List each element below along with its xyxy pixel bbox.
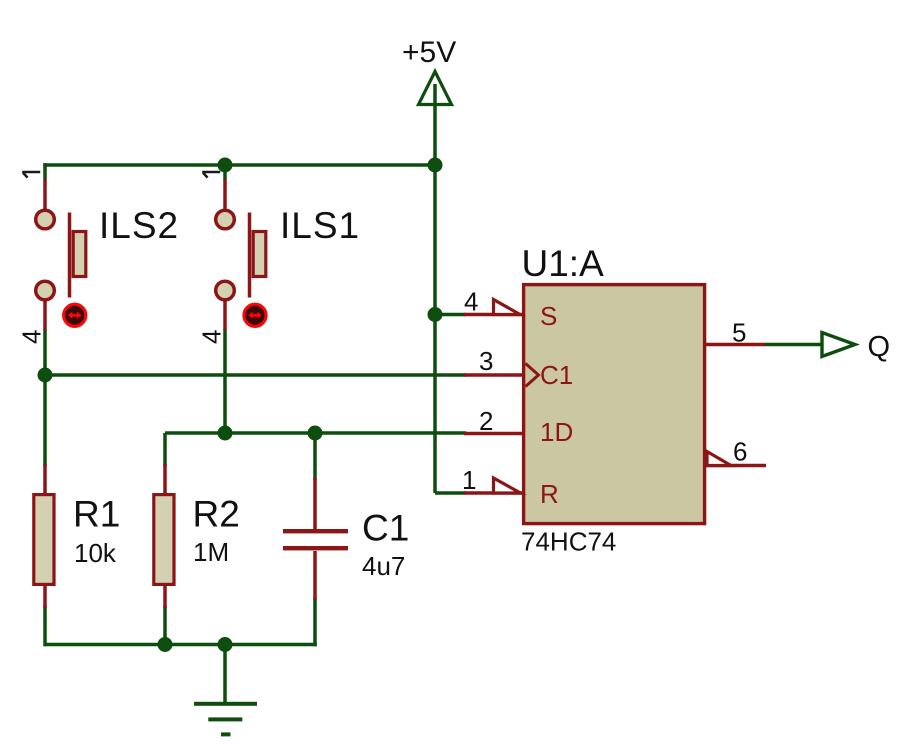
svg-text:74HC74: 74HC74 xyxy=(521,527,616,557)
svg-text:4u7: 4u7 xyxy=(362,551,405,581)
svg-text:+5V: +5V xyxy=(402,36,456,69)
svg-text:1D: 1D xyxy=(540,417,573,447)
svg-text:U1:A: U1:A xyxy=(522,243,605,284)
svg-text:4: 4 xyxy=(464,287,478,317)
svg-text:ILS2: ILS2 xyxy=(99,205,179,246)
svg-text:1: 1 xyxy=(462,465,476,495)
svg-text:4: 4 xyxy=(17,330,47,344)
svg-text:2: 2 xyxy=(479,406,493,436)
svg-text:S: S xyxy=(540,301,557,331)
svg-text:10k: 10k xyxy=(74,538,117,568)
svg-text:4: 4 xyxy=(197,330,227,344)
svg-text:R2: R2 xyxy=(193,494,240,535)
svg-text:1M: 1M xyxy=(193,537,229,567)
svg-text:3: 3 xyxy=(479,346,493,376)
svg-text:ILS1: ILS1 xyxy=(280,205,360,246)
svg-text:C1: C1 xyxy=(540,360,573,390)
svg-text:R: R xyxy=(540,479,559,509)
svg-text:6: 6 xyxy=(733,437,747,467)
svg-text:R1: R1 xyxy=(73,494,120,535)
svg-text:Q: Q xyxy=(868,331,891,363)
svg-text:C1: C1 xyxy=(362,508,409,549)
svg-text:5: 5 xyxy=(732,318,746,348)
